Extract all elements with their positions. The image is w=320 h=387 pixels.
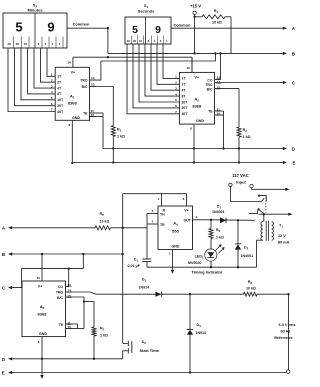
- A3 GND pin 8 stub: [38, 337, 43, 375]
- svg-text:D: D: [2, 357, 5, 362]
- svg-text:V+: V+: [195, 75, 200, 79]
- A1 GND pin 8 stub: [68, 120, 73, 164]
- wire switched hot to outlet arrow: [259, 213, 293, 216]
- svg-text:GND: GND: [39, 332, 47, 336]
- thumbwheel switch S2 Minutes label: [27, 4, 43, 13]
- svg-text:1: 1: [59, 42, 61, 46]
- wire 117VAC neutral to switch: [230, 187, 264, 202]
- svg-text:10T: 10T: [182, 100, 189, 104]
- svg-text:10T: 10T: [57, 98, 64, 102]
- wire A3 B/C pin 15: [66, 297, 86, 329]
- svg-text:TH: TH: [160, 213, 165, 217]
- svg-text:80 mA: 80 mA: [278, 241, 290, 245]
- 6.3V reference terminal: [274, 294, 295, 373]
- A1 pin numbers right side: [90, 76, 95, 117]
- svg-text:D1: D1: [217, 205, 222, 210]
- svg-text:1 kΩ: 1 kΩ: [243, 135, 251, 139]
- net arrow B right: [283, 51, 295, 56]
- wire A2 TE pins 11,10: [215, 111, 224, 149]
- svg-text:3: 3: [51, 84, 53, 88]
- net arrow E left: [2, 370, 13, 375]
- svg-text:1N4001: 1N4001: [212, 210, 225, 214]
- svg-text:9: 9: [47, 20, 54, 35]
- counter IC A3 8368: [22, 281, 66, 337]
- svg-text:5: 5: [15, 20, 22, 35]
- svg-text:OUT: OUT: [184, 218, 192, 222]
- svg-text:Input: Input: [236, 179, 246, 184]
- svg-text:8368: 8368: [38, 312, 48, 317]
- svg-text:4: 4: [158, 197, 160, 201]
- wire 555 supply line: [123, 194, 187, 206]
- svg-text:Common: Common: [174, 22, 191, 27]
- resistor R8 10 k: [244, 280, 290, 296]
- svg-text:B: B: [2, 252, 5, 257]
- svg-text:TE: TE: [208, 110, 213, 114]
- wire A1 TRO pin 14: [90, 52, 217, 80]
- svg-text:D2: D2: [244, 245, 249, 250]
- svg-text:V+: V+: [184, 208, 188, 212]
- svg-text:R8: R8: [248, 280, 253, 285]
- svg-text:D4: D4: [197, 323, 202, 328]
- net arrow B left: [2, 252, 13, 257]
- svg-text:20: 20: [133, 39, 137, 43]
- svg-text:20: 20: [16, 42, 20, 46]
- svg-text:+15 V: +15 V: [190, 4, 201, 9]
- svg-text:GND: GND: [72, 116, 80, 120]
- svg-text:1: 1: [51, 73, 53, 77]
- LED1 MV5020 timing indicator: [188, 220, 225, 267]
- diode D2 1N4001: [235, 220, 253, 267]
- svg-text:6: 6: [152, 209, 154, 213]
- pin numbers 1-7 at A1 inputs: [51, 73, 53, 112]
- svg-text:5: 5: [51, 96, 53, 100]
- Timing Indicator label: [192, 270, 223, 275]
- svg-text:40T: 40T: [57, 110, 64, 114]
- svg-text:B/C: B/C: [207, 87, 213, 91]
- svg-text:3: 3: [175, 86, 177, 90]
- svg-text:TR: TR: [160, 223, 165, 227]
- svg-text:6: 6: [51, 102, 53, 106]
- net B wire from +15/R4 junction: [108, 52, 283, 54]
- svg-text:1N914: 1N914: [139, 285, 150, 289]
- svg-text:R5: R5: [100, 212, 105, 217]
- svg-text:16: 16: [67, 61, 71, 65]
- svg-text:LED1: LED1: [195, 254, 204, 259]
- svg-text:S3: S3: [142, 340, 147, 345]
- svg-text:1 kΩ: 1 kΩ: [216, 235, 224, 239]
- svg-text:TRO: TRO: [205, 83, 213, 87]
- svg-text:R7: R7: [100, 327, 105, 332]
- svg-text:1N914: 1N914: [196, 331, 207, 335]
- ground arrow under A3 GND: [40, 375, 43, 379]
- wire +15V distribution to pin16s: [73, 56, 192, 72]
- capacitor C1 0.01 uF: [128, 228, 152, 268]
- svg-text:8: 8: [38, 42, 40, 46]
- svg-text:Reference: Reference: [274, 336, 292, 340]
- svg-text:CO: CO: [58, 285, 63, 289]
- svg-text:555: 555: [172, 229, 179, 234]
- svg-text:2: 2: [51, 78, 53, 82]
- svg-text:D: D: [292, 147, 295, 152]
- diode D4 1N914: [187, 294, 206, 372]
- thumbwheel switch S2 (Minutes) body: [3, 13, 67, 48]
- A1 pin 16 V+ stub: [67, 57, 73, 67]
- svg-text:A1: A1: [70, 94, 75, 100]
- svg-text:5: 5: [175, 98, 177, 102]
- svg-text:1: 1: [175, 75, 177, 79]
- wire S1 common to net A: [171, 22, 283, 28]
- wire A1 TE pins 11,10: [90, 113, 104, 149]
- counter IC A1 8368: [55, 67, 89, 120]
- diode D1 1N4001: [212, 205, 226, 224]
- resistor R7 1 k: [84, 302, 108, 360]
- wire A2 B/C pin 15: [215, 88, 240, 90]
- net arrow A left: [2, 226, 13, 231]
- net arrow E right: [283, 161, 296, 166]
- svg-text:TRO: TRO: [56, 291, 64, 295]
- pushbutton S3 Start Time: [123, 340, 160, 359]
- svg-text:0.01 μF: 0.01 μF: [128, 264, 141, 268]
- resistor R5 10 k: [95, 212, 111, 230]
- svg-text:V+: V+: [71, 71, 76, 75]
- svg-text:1 kΩ: 1 kΩ: [100, 334, 108, 338]
- wire A2 CO pin 13 to R4: [215, 52, 222, 79]
- A3 pin numbers right side: [67, 283, 72, 329]
- wire net B to A3 pin 16: [37, 254, 42, 281]
- net D rail: [103, 147, 283, 149]
- svg-text:8: 8: [38, 340, 40, 344]
- svg-text:1 kΩ: 1 kΩ: [117, 135, 125, 139]
- svg-text:5: 5: [132, 24, 138, 36]
- svg-text:10 kΩ: 10 kΩ: [246, 287, 256, 291]
- svg-text:12 V: 12 V: [278, 234, 286, 238]
- wire A2 TRO pin 14 to net C: [215, 82, 284, 84]
- wire 117VAC hot to outlet arrow: [252, 188, 290, 191]
- wire A3 CO loop to net B: [66, 254, 84, 286]
- svg-text:Minutes: Minutes: [27, 8, 43, 13]
- svg-text:Common: Common: [73, 22, 90, 27]
- wires S2 outputs to A1 preset inputs: [8, 48, 55, 112]
- wire A3 TE pins 11,10: [66, 324, 78, 329]
- resistor R2 1 k: [237, 89, 251, 164]
- svg-text:CO: CO: [207, 78, 212, 82]
- svg-text:C1: C1: [134, 258, 139, 263]
- svg-text:8: 8: [68, 123, 70, 127]
- svg-text:7: 7: [51, 108, 53, 112]
- svg-text:MV5020: MV5020: [188, 261, 201, 265]
- svg-text:8368: 8368: [68, 101, 78, 106]
- net arrow D right: [283, 147, 295, 152]
- svg-text:A3: A3: [40, 304, 45, 310]
- svg-text:R1: R1: [117, 128, 122, 133]
- net C wire to A3 CO: [13, 267, 83, 287]
- svg-text:Start Time: Start Time: [140, 348, 160, 353]
- net D rail bottom: [13, 358, 123, 360]
- wire 60Hz line to R8: [162, 293, 244, 295]
- transformer T1 12V 80mA: [261, 221, 290, 245]
- svg-text:6.3 V rms: 6.3 V rms: [279, 323, 296, 327]
- svg-text:R4: R4: [214, 9, 219, 14]
- svg-text:Seconds: Seconds: [138, 9, 155, 14]
- counter IC A2 8368: [179, 72, 214, 124]
- svg-text:40: 40: [127, 39, 131, 43]
- svg-text:R2: R2: [243, 128, 248, 133]
- net A wire to 555 trigger: [13, 227, 147, 229]
- net E rail bottom: [13, 371, 287, 373]
- timer IC A4 555: [158, 206, 193, 250]
- net arrow A right: [283, 26, 296, 31]
- svg-text:60 Hz: 60 Hz: [281, 330, 291, 334]
- svg-text:8: 8: [183, 197, 185, 201]
- 117 VAC input terminals: [229, 173, 254, 188]
- svg-text:117 VAC: 117 VAC: [232, 173, 248, 178]
- switch mechanical link: [265, 197, 267, 212]
- A2 GND pin 8 stub: [190, 124, 195, 164]
- wire A3 TRO to 60Hz reference line: [66, 292, 156, 294]
- net arrow C right: [283, 81, 296, 86]
- svg-text:2: 2: [52, 42, 54, 46]
- wire S2 common: [67, 22, 109, 54]
- resistor R4 10 k pull-up: [195, 9, 231, 53]
- svg-text:A2: A2: [195, 97, 200, 103]
- net B wire: [13, 253, 124, 255]
- svg-text:B/C: B/C: [57, 296, 63, 300]
- thumbwheel switch S1 (Seconds) body: [125, 17, 171, 44]
- svg-text:40T: 40T: [182, 112, 189, 116]
- svg-text:10: 10: [139, 39, 143, 43]
- svg-text:9: 9: [155, 24, 161, 36]
- A2 pin numbers right side: [216, 75, 221, 115]
- wire 555 output pin 3: [193, 215, 213, 221]
- svg-text:GND: GND: [196, 119, 204, 123]
- wire transformer secondary to common rail: [257, 240, 263, 267]
- resistor R6 1 k: [209, 228, 224, 249]
- svg-text:16: 16: [37, 276, 41, 280]
- svg-text:10: 10: [23, 42, 27, 46]
- thumbwheel switch S1 Seconds label: [138, 4, 155, 13]
- svg-text:E: E: [2, 370, 5, 375]
- power switch pole 2: [249, 208, 264, 213]
- wire A1 B/C pin 15: [90, 86, 114, 88]
- svg-text:40: 40: [7, 42, 11, 46]
- svg-text:16: 16: [187, 66, 191, 70]
- svg-text:8368: 8368: [192, 104, 202, 109]
- wire 555 output to D1: [211, 219, 255, 221]
- svg-text:6: 6: [175, 104, 177, 108]
- wire to transformer primary: [263, 214, 265, 221]
- svg-text:V+: V+: [38, 284, 43, 288]
- svg-text:E: E: [293, 161, 296, 166]
- svg-text:7: 7: [175, 110, 177, 114]
- svg-text:2: 2: [152, 220, 154, 224]
- svg-text:A4: A4: [173, 221, 178, 227]
- svg-text:20T: 20T: [57, 104, 64, 108]
- svg-text:R6: R6: [216, 228, 221, 233]
- svg-text:20T: 20T: [182, 106, 189, 110]
- svg-text:TE: TE: [59, 323, 64, 327]
- svg-text:10 kΩ: 10 kΩ: [100, 219, 110, 223]
- svg-text:8: 8: [190, 127, 192, 131]
- net arrow D left: [2, 357, 13, 362]
- wire 555 threshold/trigger loop: [147, 209, 158, 228]
- svg-text:2: 2: [175, 81, 177, 85]
- wire net B down to start switch: [122, 194, 124, 344]
- svg-text:4: 4: [45, 42, 47, 46]
- A2 pin 16 stub: [187, 57, 192, 72]
- wire 555 GND pin 1: [169, 250, 173, 270]
- svg-text:1: 1: [169, 252, 171, 256]
- pin numbers 1-7 at A2 inputs: [175, 75, 177, 114]
- svg-text:1N4001: 1N4001: [241, 254, 254, 258]
- wires S1 outputs to A2 preset inputs: [127, 44, 179, 114]
- svg-text:10 kΩ: 10 kΩ: [212, 20, 222, 24]
- svg-text:TE: TE: [83, 111, 88, 115]
- svg-text:Timing Indicator: Timing Indicator: [192, 270, 223, 275]
- mid common rail: [147, 266, 257, 268]
- svg-text:D3: D3: [142, 277, 147, 282]
- svg-text:B: B: [292, 51, 295, 56]
- net arrow C left: [2, 285, 13, 290]
- power switch pole 1: [258, 194, 266, 201]
- net E ground rail: [72, 162, 283, 164]
- svg-text:3: 3: [196, 215, 198, 219]
- ground arrow under 555: [171, 270, 174, 274]
- +15V supply terminal: [190, 4, 201, 55]
- svg-text:4: 4: [175, 92, 177, 96]
- svg-text:GND: GND: [172, 245, 180, 249]
- svg-text:B/C: B/C: [82, 85, 88, 89]
- svg-text:TRO: TRO: [80, 78, 88, 82]
- svg-text:T1: T1: [279, 223, 283, 228]
- resistor R1 1 k: [111, 87, 125, 164]
- diode D3 1N914: [139, 277, 162, 296]
- svg-text:4: 4: [51, 90, 53, 94]
